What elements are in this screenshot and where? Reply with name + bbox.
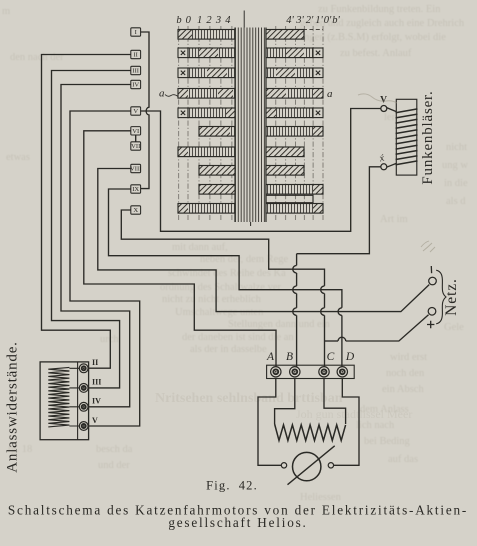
pencil smudge near terminal V — [358, 94, 397, 103]
svg-text:als d: als d — [446, 196, 466, 207]
svg-text:4': 4' — [286, 15, 294, 26]
contact bar row 10 left — [178, 204, 188, 214]
contact finger VII — [131, 142, 141, 150]
contact bar row 7 left — [178, 147, 188, 157]
contact bar row 6 right — [266, 127, 313, 137]
Netz brace — [436, 270, 446, 324]
svg-text:Fig. 42.: Fig. 42. — [206, 479, 258, 493]
wire finger V to starting-resistor tap V — [70, 111, 140, 426]
svg-text:Stellungen dann und ein: Stellungen dann und ein — [228, 319, 331, 330]
contact bar row 7 right — [266, 147, 304, 157]
svg-text:Anlasswiderstände.: Anlasswiderstände. — [5, 341, 21, 472]
pencil smudge near Netz — [421, 241, 435, 252]
contact finger I — [131, 28, 141, 36]
contact bar row 5 right with x-contact — [266, 108, 276, 118]
svg-text:IX: IX — [132, 186, 139, 193]
svg-text:tungen (z.B.S.M) erfolgt, wobe: tungen (z.B.S.M) erfolgt, wobei die — [296, 32, 446, 43]
svg-text:ung w: ung w — [442, 160, 468, 171]
svg-text:b': b' — [332, 15, 340, 26]
Netz switch contact minus — [429, 277, 437, 285]
motor right brush terminal — [328, 463, 333, 468]
svg-text:Umschaltwege unten: Umschaltwege unten — [175, 307, 264, 318]
position grid lines left (b,0,1,2,3,4) — [178, 26, 180, 220]
svg-text:noch den: noch den — [386, 368, 425, 379]
contact bar row a left — [178, 89, 188, 99]
svg-text:Netz.: Netz. — [443, 278, 460, 316]
terminal A — [271, 367, 281, 377]
svg-text:a: a — [159, 88, 165, 100]
contact bar row 1 right — [266, 30, 304, 40]
svg-text:3: 3 — [215, 15, 221, 26]
terminal B — [290, 367, 300, 377]
wire finger IV to starting-resistor tap IV — [61, 85, 131, 407]
svg-text:Joh gun stadtlissel Meer: Joh gun stadtlissel Meer — [296, 407, 412, 421]
wire finger III to starting-resistor tap III — [52, 71, 131, 388]
Funkenblaeser winding — [396, 109, 418, 165]
svg-text:3': 3' — [295, 15, 304, 26]
svg-text:Nritsehen sehlnsband brttis: Nritsehen sehlnsband brttisban — [155, 391, 343, 406]
contact finger VIII — [131, 164, 141, 172]
svg-text:Art im: Art im — [380, 214, 408, 225]
svg-text:zu Funkenbildung treten. Ein: zu Funkenbildung treten. Ein — [318, 4, 441, 15]
svg-text:D: D — [345, 351, 355, 363]
wire terminal C tap to Netz switch plus (hop over D drop) — [325, 340, 339, 342]
svg-text:II: II — [92, 358, 98, 367]
svg-text:2': 2' — [306, 15, 314, 26]
svg-text:VI: VI — [132, 128, 139, 135]
wire terminal B down to resistor — [275, 379, 295, 425]
wire finger V around drum to Funkenblaeser terminal V — [141, 109, 381, 232]
contact finger X — [131, 206, 141, 214]
svg-text:A: A — [266, 351, 275, 363]
Funkenblaeser terminal x — [381, 164, 387, 170]
svg-text:VII: VII — [131, 143, 140, 150]
wire finger X to terminal C (C drop hops over crossing runs) — [121, 210, 324, 286]
terminal block — [267, 365, 355, 378]
svg-text:Funkenbläser.: Funkenbläser. — [420, 90, 436, 184]
svg-text:4: 4 — [225, 15, 231, 26]
contact bar row a right — [266, 89, 286, 99]
svg-text:a: a — [327, 88, 333, 100]
motor brush axis line — [288, 446, 335, 485]
contact finger VI — [131, 127, 141, 135]
contact finger IV — [131, 80, 141, 88]
svg-text:III: III — [92, 378, 101, 387]
wire link finger VI to finger VII — [135, 135, 137, 142]
svg-text:Heliessen: Heliessen — [300, 492, 342, 503]
svg-text:als der in dasselbe: als der in dasselbe — [190, 344, 267, 355]
Funkenblaeser terminal V — [381, 106, 387, 112]
svg-text:nicht: nicht — [446, 142, 467, 153]
svg-text:IV: IV — [132, 82, 139, 89]
drum axis marks — [243, 11, 245, 28]
svg-text:1': 1' — [315, 15, 323, 26]
svg-text:III: III — [132, 68, 139, 75]
svg-text:0: 0 — [186, 15, 192, 26]
svg-text:auf das: auf das — [388, 454, 418, 465]
svg-text:C: C — [327, 351, 335, 363]
svg-text:in die: in die — [444, 178, 468, 189]
svg-text:besch da: besch da — [96, 444, 133, 455]
wire finger VI to terminal A — [84, 131, 276, 367]
drum center column (commutator cylinder) — [235, 28, 266, 223]
svg-text:IV: IV — [92, 397, 101, 406]
svg-text:0': 0' — [324, 15, 332, 26]
contact bar row 10 right — [266, 204, 313, 214]
svg-text:1: 1 — [197, 15, 202, 26]
contact bar row 8 right — [266, 166, 304, 176]
svg-text:V: V — [92, 416, 98, 425]
contact bar row 3 right with x-contact — [266, 68, 276, 78]
starting resistor taps — [69, 368, 79, 426]
wire terminal C down to resistor — [324, 379, 346, 425]
svg-text:ein Absch: ein Absch — [382, 384, 424, 395]
junction B top — [296, 254, 298, 266]
wire Funkenblaeser lower terminal to terminal B — [297, 167, 381, 254]
svg-text:nicht zu nicht erheblich: nicht zu nicht erheblich — [162, 294, 262, 305]
starting resistor box — [40, 362, 89, 440]
contact bar row 2 right with x-contact — [266, 48, 286, 58]
Funkenblaeser coil body — [396, 99, 417, 175]
drum position labels — [176, 15, 340, 26]
svg-text:Gele: Gele — [444, 322, 464, 333]
svg-text:mit dann auf,: mit dann auf, — [172, 242, 228, 253]
svg-text:2: 2 — [206, 15, 212, 26]
wire terminal D to motor right brush — [334, 379, 360, 466]
starting resistor zigzag element — [48, 367, 69, 427]
wire finger I to finger IX (bracket with hop over V wire) — [141, 32, 149, 189]
contact finger V — [131, 107, 141, 115]
svg-text:wird erst: wird erst — [390, 352, 427, 363]
wire finger II to starting-resistor tap II — [42, 55, 131, 369]
motor armature — [293, 452, 321, 480]
starting resistor terminal II — [79, 364, 88, 373]
svg-text:V: V — [133, 108, 138, 115]
Netz switch contact plus — [428, 308, 436, 316]
starting resistor terminal V — [79, 422, 88, 431]
terminal C — [319, 367, 329, 377]
svg-text:X: X — [133, 207, 138, 214]
contact finger IX — [131, 185, 141, 193]
svg-text:bei Beding: bei Beding — [364, 436, 411, 447]
starting resistor terminal III — [79, 384, 88, 393]
svg-text:b: b — [176, 15, 181, 26]
contact bar row 1 left — [178, 30, 192, 40]
svg-text:gesellschaft Helios.: gesellschaft Helios. — [168, 515, 307, 530]
svg-text:zu befest. Anlauf: zu befest. Anlauf — [340, 48, 412, 59]
contact finger II — [131, 50, 141, 58]
svg-text:etwas: etwas — [6, 152, 30, 163]
contact finger III — [131, 66, 141, 74]
contact bar row 8 left — [199, 166, 235, 176]
svg-text:lich nach: lich nach — [356, 420, 395, 431]
contact bar row 9b right — [266, 195, 313, 202]
svg-text:der daneben ist sind die an: der daneben ist sind die an — [182, 332, 294, 343]
controller drum development diagram — [159, 11, 341, 227]
svg-text:und der: und der — [98, 460, 130, 471]
terminal D — [337, 367, 347, 377]
contact bar row 9 right — [266, 185, 313, 195]
svg-text:I: I — [135, 29, 137, 36]
position grid lines right (4',3',2',1',0',b') — [275, 26, 277, 220]
svg-text:den nach der: den nach der — [10, 52, 64, 63]
starting resistor terminal IV — [79, 402, 88, 411]
wire finger VIII to Netz switch minus — [98, 169, 429, 312]
contact bar row 5 left with x-contact — [178, 108, 188, 118]
svg-text:ler: ler — [384, 112, 396, 123]
svg-text:VIII: VIII — [130, 166, 141, 173]
wire finger IX to terminal D (D drop hops over Netz run) — [109, 189, 342, 308]
svg-text:B: B — [286, 351, 293, 363]
contact bar row 3 left with x-contact — [178, 68, 188, 78]
svg-text:II: II — [133, 52, 137, 59]
contact bar row 6 left — [199, 127, 230, 137]
contact bar row 9 left — [199, 185, 235, 195]
svg-text:m: m — [2, 6, 10, 17]
motor left brush terminal — [281, 463, 286, 468]
wire terminal A to motor left brush — [258, 379, 281, 466]
resistor zigzag — [275, 424, 346, 441]
contact bar row 2 left with x-contact — [178, 48, 188, 58]
